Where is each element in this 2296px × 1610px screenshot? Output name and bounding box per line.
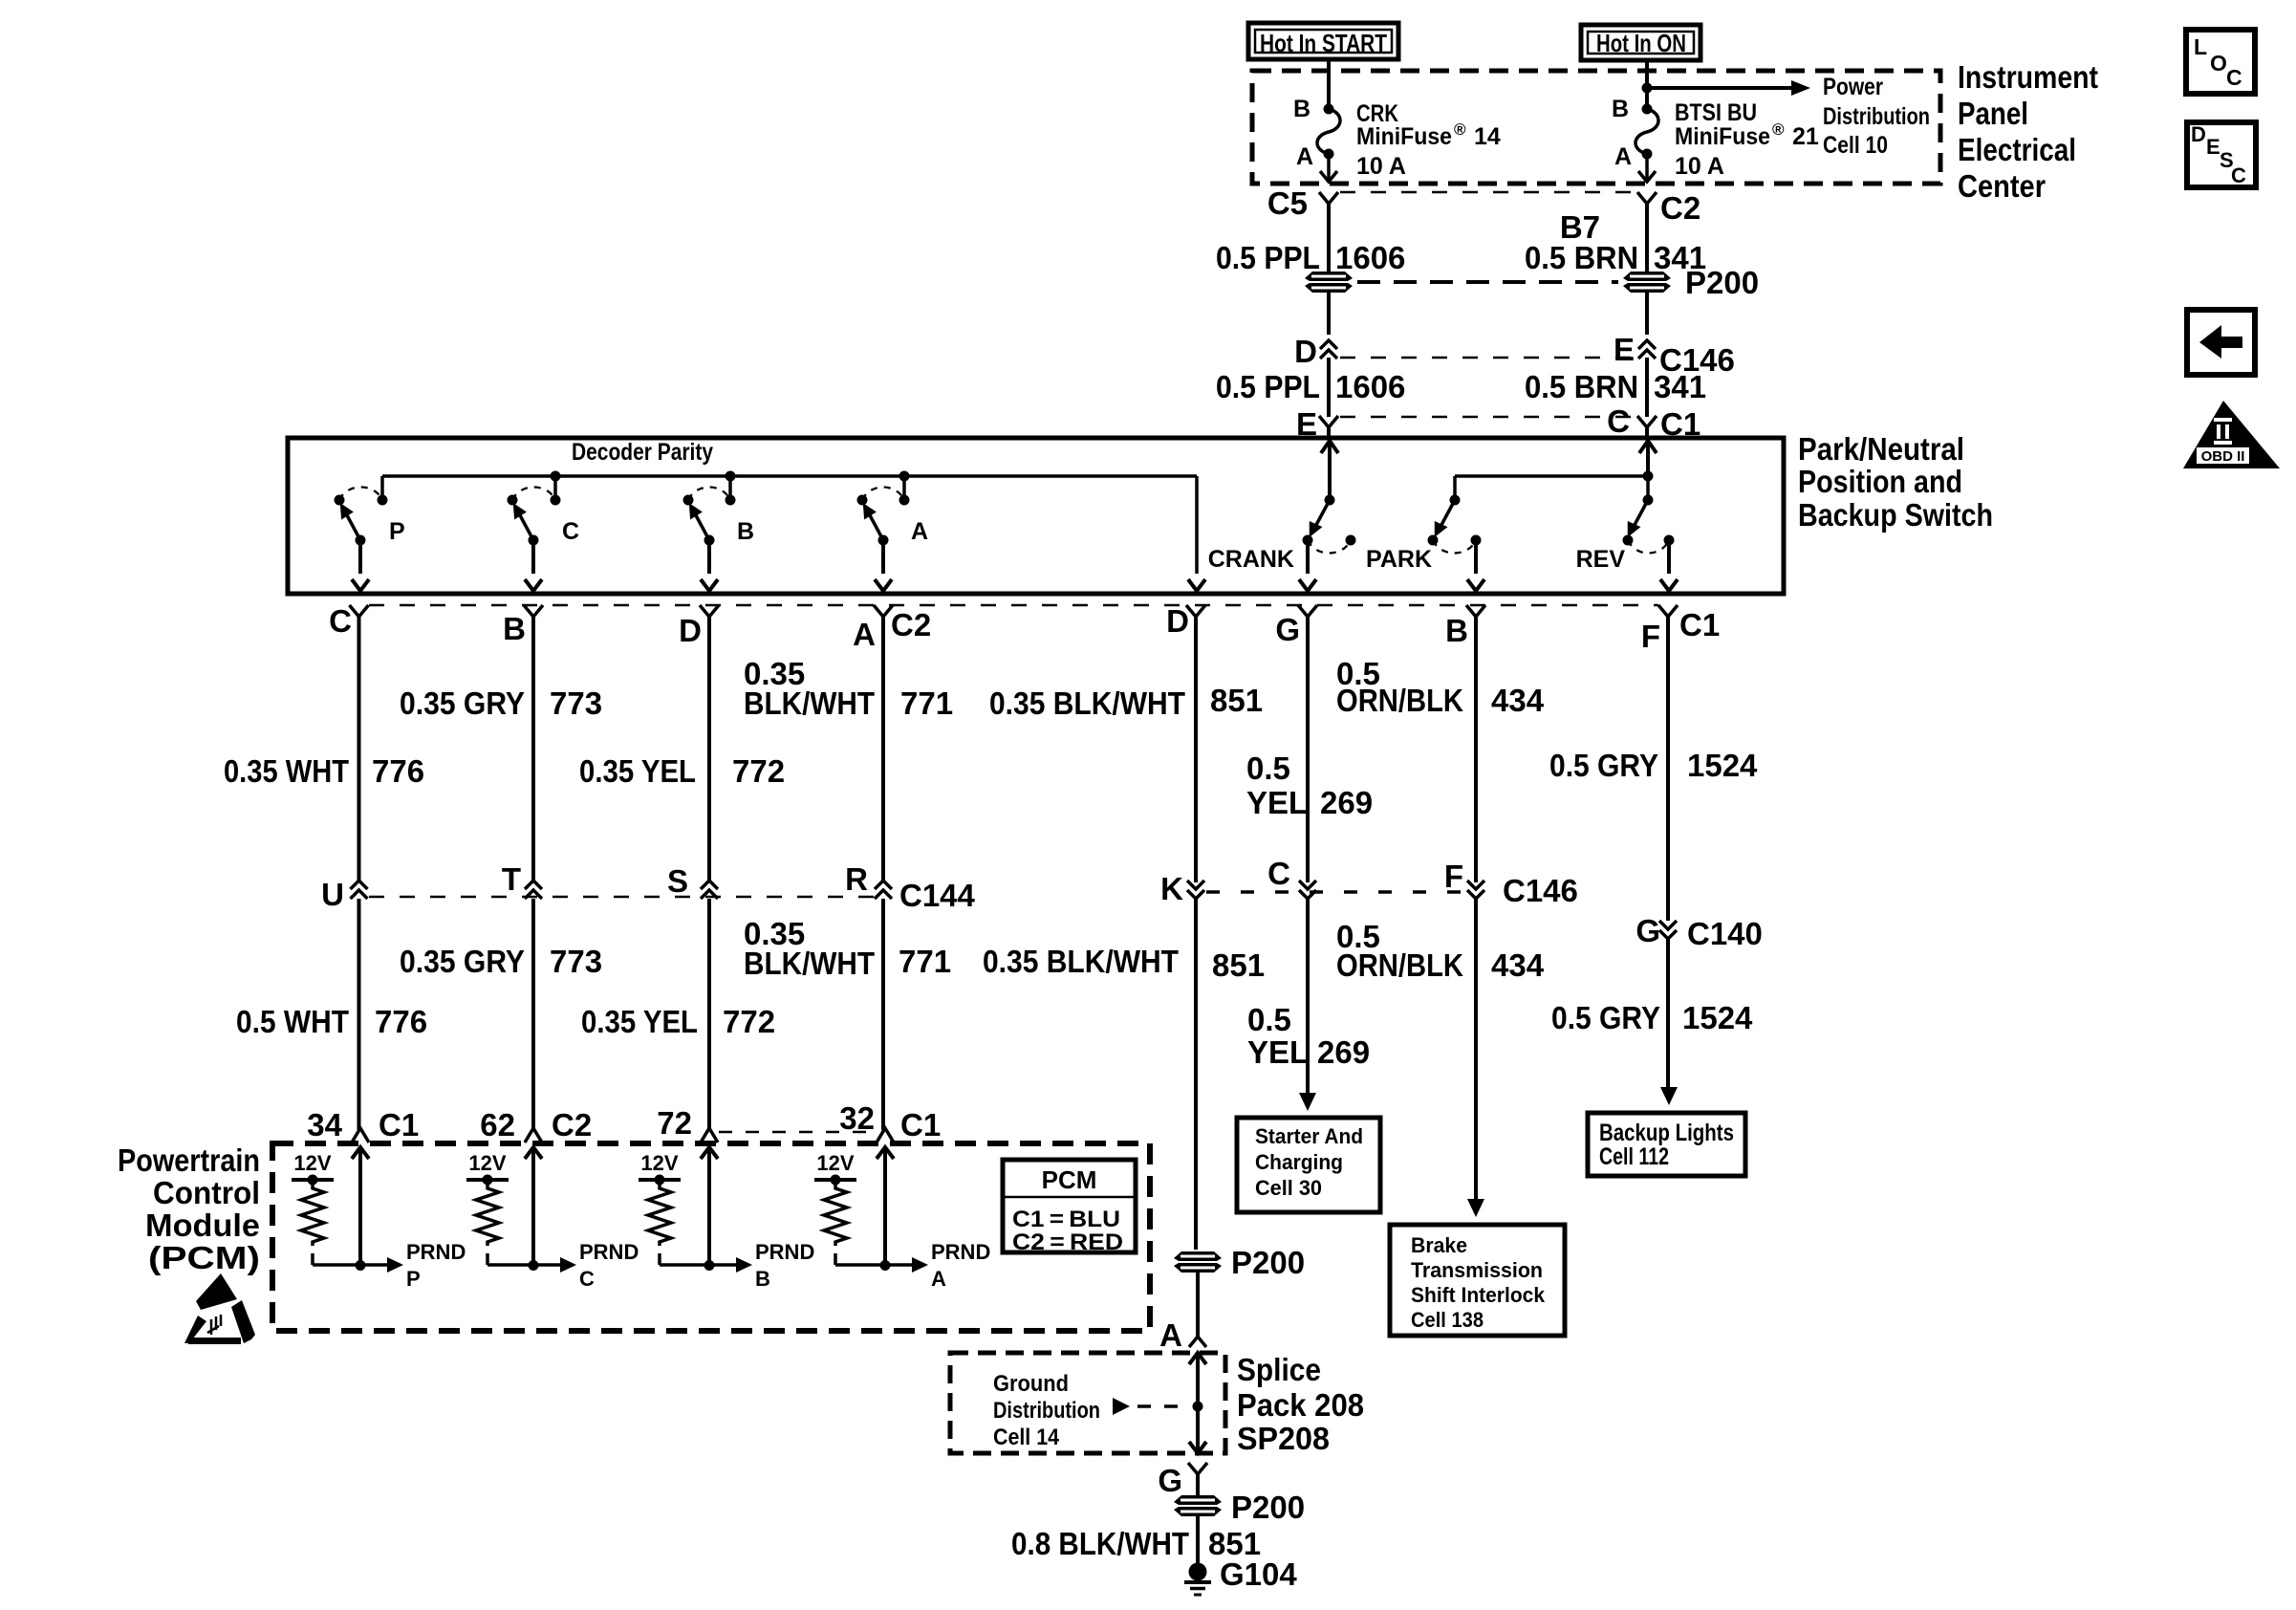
svg-text:0.35 GRY: 0.35 GRY: [400, 685, 525, 721]
connector C146b tie dashes: [1206, 890, 1464, 894]
svg-text:C1: C1: [900, 1107, 941, 1142]
wire 773 lower segment: [531, 899, 535, 1130]
svg-text:(PCM): (PCM): [148, 1240, 260, 1275]
wire hot-in-start feed: [1327, 59, 1331, 109]
svg-text:0.5: 0.5: [1246, 751, 1290, 786]
svg-text:0.5 WHT: 0.5 WHT: [236, 1004, 349, 1039]
svg-text:A: A: [1159, 1317, 1182, 1353]
svg-text:F: F: [1641, 619, 1660, 654]
wire 851 to ground: [1196, 1516, 1200, 1566]
connector C1 pin E: [1319, 416, 1338, 427]
power feed box Hot In START: [1248, 23, 1398, 59]
svg-text:C1 = BLU: C1 = BLU: [1012, 1207, 1120, 1232]
fuse CRK MiniFuse 14 output arrow: [1327, 154, 1331, 180]
svg-text:Hot In ON: Hot In ON: [1596, 29, 1686, 57]
wire 776 lower segment: [357, 899, 361, 1130]
decoder switch P: [335, 495, 345, 506]
connector pin D2 (row1): [1186, 605, 1205, 617]
svg-text:D: D: [1294, 334, 1317, 369]
svg-text:Power: Power: [1823, 74, 1883, 100]
svg-text:C2: C2: [1660, 190, 1700, 226]
connector tie line C146 top: [1340, 357, 1635, 359]
pcm wire P inside: [358, 1147, 362, 1265]
rail junction dot C: [551, 471, 561, 482]
wire 341 lower: [1645, 358, 1649, 417]
backup switch REV: [1643, 495, 1654, 506]
svg-text:434: 434: [1491, 683, 1545, 718]
svg-text:P200: P200: [1685, 265, 1759, 300]
svg-text:Panel: Panel: [1958, 96, 2028, 131]
svg-text:ORN/BLK: ORN/BLK: [1336, 683, 1463, 718]
park branch junction dot: [1643, 471, 1654, 482]
connector pin B (row1): [524, 605, 543, 617]
svg-text:12V: 12V: [468, 1151, 506, 1175]
svg-text:0.35 GRY: 0.35 GRY: [400, 944, 525, 979]
svg-text:D: D: [679, 613, 702, 648]
svg-text:772: 772: [723, 1004, 775, 1039]
park/neutral position and backup switch box: [288, 438, 1784, 594]
svg-text:P: P: [389, 518, 405, 545]
svg-text:Distribution: Distribution: [1823, 103, 1930, 130]
svg-text:C: C: [579, 1267, 595, 1291]
svg-text:CRANK: CRANK: [1208, 546, 1294, 573]
svg-text:21: 21: [1792, 123, 1819, 150]
svg-text:O: O: [2210, 51, 2227, 76]
junction dot power distribution branch: [1642, 83, 1653, 94]
svg-text:B: B: [503, 611, 526, 646]
svg-text:Splice: Splice: [1237, 1352, 1321, 1387]
connector C144 pin T: [525, 881, 542, 899]
svg-text:1524: 1524: [1682, 1000, 1753, 1035]
svg-text:C2: C2: [891, 607, 931, 642]
pass-through grommet P200 bottom: [1174, 1495, 1222, 1516]
svg-text:C1: C1: [379, 1107, 419, 1142]
svg-text:®: ®: [1772, 120, 1785, 139]
svg-text:PARK: PARK: [1366, 546, 1432, 573]
decoder parity rail: [380, 476, 384, 500]
connector C144 tie dashes: [369, 896, 874, 899]
wire 1524 lower segment: [1666, 939, 1670, 1092]
wire 341 to C146: [1645, 293, 1649, 335]
svg-text:C144: C144: [899, 878, 976, 913]
svg-text:C: C: [2231, 163, 2246, 187]
svg-text:0.5 BRN: 0.5 BRN: [1525, 240, 1638, 275]
instrument panel electrical center dashed box: [1252, 71, 1940, 184]
starter and charging box: [1237, 1118, 1380, 1212]
rail junction dot A: [899, 471, 910, 482]
svg-text:C: C: [329, 603, 352, 639]
svg-text:Ground: Ground: [993, 1371, 1069, 1397]
connector C2 pin: [1637, 192, 1657, 204]
svg-text:G: G: [1158, 1463, 1182, 1498]
connector C144 pin R: [875, 881, 892, 899]
svg-text:0.5 GRY: 0.5 GRY: [1551, 1000, 1660, 1035]
svg-text:BTSI BU: BTSI BU: [1675, 99, 1757, 126]
svg-text:YEL: YEL: [1246, 785, 1308, 820]
ground distribution pointer: [1113, 1398, 1130, 1415]
svg-text:U: U: [321, 877, 344, 912]
wire C into switch box: [1645, 427, 1649, 438]
pcm wire C inside: [531, 1147, 535, 1265]
connector pin B2 (row1): [1466, 605, 1485, 617]
svg-text:R: R: [845, 861, 868, 897]
splice wire with arrows: [1189, 1353, 1206, 1364]
fuse CRK MiniFuse 14 element: [1317, 109, 1340, 154]
svg-text:PRND: PRND: [406, 1240, 466, 1264]
svg-text:773: 773: [550, 944, 602, 979]
icon LOC box: [2186, 30, 2255, 94]
switch entry arrow C: [1639, 441, 1657, 453]
svg-text:E: E: [2206, 135, 2220, 159]
connector C5 pin: [1319, 192, 1338, 204]
ground G104: [1189, 1563, 1207, 1581]
switch entry arrow E: [1321, 441, 1338, 453]
svg-text:PRND: PRND: [931, 1240, 990, 1264]
icon back arrow box: [2187, 310, 2255, 375]
pass-through grommet P200 middle: [1174, 1251, 1222, 1273]
rail stub B: [728, 476, 732, 500]
connector pin C (row1): [350, 605, 369, 617]
svg-text:Position and: Position and: [1798, 464, 1962, 499]
svg-text:D: D: [2191, 122, 2206, 146]
connector C1 pin C: [1637, 416, 1657, 427]
connector C146 pin D: [1320, 340, 1337, 359]
svg-text:341: 341: [1654, 369, 1706, 404]
svg-text:REV: REV: [1576, 546, 1626, 573]
connector row C2/C1 tie dashes: [369, 604, 1658, 607]
wire 341 upper: [1645, 204, 1649, 272]
svg-text:776: 776: [372, 753, 424, 789]
connector pin A (row1): [874, 605, 893, 617]
svg-text:Charging: Charging: [1255, 1150, 1343, 1174]
svg-text:Module: Module: [145, 1207, 260, 1243]
svg-text:14: 14: [1474, 123, 1501, 150]
power feed box Hot In ON: [1581, 25, 1700, 60]
svg-text:Center: Center: [1958, 168, 2046, 204]
svg-text:B: B: [755, 1267, 770, 1291]
svg-text:C5: C5: [1267, 185, 1308, 221]
svg-text:F: F: [1444, 859, 1463, 894]
svg-text:BLK/WHT: BLK/WHT: [744, 685, 875, 721]
connector C146 pin K: [1187, 881, 1204, 899]
connector pin D (row1): [700, 605, 719, 617]
svg-text:773: 773: [550, 685, 602, 721]
svg-text:0.35 YEL: 0.35 YEL: [579, 753, 696, 789]
svg-text:B: B: [1612, 96, 1629, 122]
btsi feed arrow: [1467, 1199, 1484, 1217]
svg-text:10 A: 10 A: [1675, 153, 1724, 180]
svg-text:12V: 12V: [640, 1151, 678, 1175]
rail stub A: [902, 476, 906, 500]
wire 771 upper segment: [881, 617, 885, 881]
svg-text:T: T: [502, 861, 521, 897]
svg-text:MiniFuse: MiniFuse: [1675, 123, 1770, 150]
svg-text:0.5: 0.5: [1247, 1002, 1291, 1037]
svg-text:E: E: [1614, 332, 1635, 367]
wire 434 upper segment: [1474, 617, 1478, 882]
wire 1606 to C146: [1327, 293, 1331, 335]
svg-text:D: D: [1166, 603, 1189, 639]
svg-text:Instrument: Instrument: [1958, 59, 2098, 95]
wire E into switch box: [1327, 427, 1331, 438]
fuse BTSI BU MiniFuse 21 output arrow: [1645, 154, 1649, 180]
svg-text:C140: C140: [1687, 916, 1763, 951]
svg-text:A: A: [853, 617, 876, 652]
backup switch PARK: [1450, 495, 1461, 506]
connector C146 pin C: [1299, 881, 1316, 899]
svg-text:Hot In START: Hot In START: [1260, 29, 1387, 57]
splice pack pin G: [1188, 1463, 1207, 1474]
svg-text:Backup Lights: Backup Lights: [1599, 1120, 1734, 1146]
svg-text:C146: C146: [1503, 873, 1578, 908]
svg-text:C1: C1: [1679, 607, 1720, 642]
svg-text:269: 269: [1317, 1034, 1370, 1070]
svg-text:G104: G104: [1220, 1556, 1297, 1592]
decoder switch A: [857, 495, 868, 506]
svg-text:269: 269: [1320, 785, 1373, 820]
svg-text:P200: P200: [1231, 1490, 1305, 1525]
svg-text:Decoder Parity: Decoder Parity: [572, 439, 713, 466]
starter feed arrow: [1299, 1093, 1316, 1111]
svg-text:434: 434: [1491, 947, 1545, 983]
svg-text:P200: P200: [1231, 1245, 1305, 1280]
pcm wire A inside: [883, 1147, 887, 1265]
pcm pin tie dashes: [719, 1131, 875, 1134]
svg-text:1524: 1524: [1687, 748, 1758, 783]
wire 1606 upper: [1327, 204, 1331, 272]
svg-text:G: G: [1275, 612, 1300, 647]
connector tie line C1 top: [1340, 416, 1635, 419]
svg-text:B: B: [737, 518, 754, 545]
svg-text:B: B: [1293, 96, 1310, 122]
wire 851 trunk upper: [1194, 617, 1198, 882]
svg-text:Park/Neutral: Park/Neutral: [1798, 431, 1964, 467]
svg-text:SP208: SP208: [1237, 1421, 1330, 1456]
grommet tie line P200: [1357, 280, 1618, 284]
wire 269 lower segment: [1306, 899, 1310, 1098]
svg-text:Shift Interlock: Shift Interlock: [1411, 1283, 1546, 1307]
connector C140 pin G: [1659, 921, 1677, 939]
svg-text:Cell 10: Cell 10: [1823, 132, 1888, 159]
svg-text:0.5 BRN: 0.5 BRN: [1525, 369, 1638, 404]
svg-text:C: C: [562, 518, 579, 545]
svg-text:0.5 PPL: 0.5 PPL: [1216, 240, 1320, 275]
wire hot-in-on feed: [1645, 60, 1649, 109]
svg-text:771: 771: [899, 944, 951, 979]
pcm legend box: [1003, 1160, 1136, 1252]
esd sensitive device symbol: [196, 1273, 237, 1310]
svg-text:Powertrain: Powertrain: [118, 1142, 260, 1178]
fuse BTSI BU MiniFuse 21 terminal A: [1642, 149, 1653, 160]
rev feed wire: [1646, 476, 1650, 500]
svg-text:0.5 PPL: 0.5 PPL: [1216, 369, 1320, 404]
svg-text:C: C: [1607, 403, 1630, 439]
svg-text:PCM: PCM: [1042, 1165, 1097, 1194]
svg-text:1606: 1606: [1335, 240, 1405, 275]
svg-text:A: A: [931, 1267, 946, 1291]
fuse CRK MiniFuse 14 terminal B: [1324, 104, 1334, 115]
rail junction dot B: [726, 471, 736, 482]
icon OBD II triangle: [2183, 401, 2280, 468]
svg-text:Starter And: Starter And: [1255, 1124, 1363, 1148]
connector C146 pin F: [1467, 881, 1484, 899]
svg-text:72: 72: [657, 1105, 692, 1141]
powertrain control module dashed box: [272, 1143, 1150, 1331]
wire 773 upper segment: [531, 617, 535, 881]
wire 771 lower segment: [881, 899, 885, 1130]
pass-through grommet P200 right: [1623, 272, 1671, 293]
svg-text:C: C: [2226, 65, 2242, 90]
svg-text:YEL: YEL: [1247, 1034, 1309, 1070]
svg-text:0.35 BLK/WHT: 0.35 BLK/WHT: [989, 685, 1185, 721]
svg-text:PRND: PRND: [579, 1240, 639, 1264]
svg-text:Cell 14: Cell 14: [993, 1425, 1060, 1450]
backup feed arrow: [1660, 1087, 1678, 1105]
svg-text:PRND: PRND: [755, 1240, 814, 1264]
svg-text:0.8 BLK/WHT: 0.8 BLK/WHT: [1011, 1526, 1189, 1561]
svg-text:A: A: [1614, 143, 1632, 170]
svg-text:Backup Switch: Backup Switch: [1798, 497, 1993, 533]
pcm wire B inside: [707, 1147, 711, 1265]
wire 772 lower segment: [707, 899, 711, 1130]
park branch wire: [1455, 474, 1648, 478]
svg-text:Brake: Brake: [1411, 1233, 1467, 1257]
wire G to P200: [1196, 1474, 1200, 1495]
svg-text:MiniFuse: MiniFuse: [1356, 123, 1452, 150]
svg-text:10 A: 10 A: [1356, 153, 1406, 180]
rail stub C: [553, 476, 557, 500]
svg-text:851: 851: [1212, 947, 1265, 983]
connector C144 pin S: [701, 881, 718, 899]
fuse CRK MiniFuse 14 terminal A: [1324, 149, 1334, 160]
svg-text:0.35 YEL: 0.35 YEL: [581, 1004, 698, 1039]
svg-text:C2 = RED: C2 = RED: [1012, 1229, 1123, 1255]
svg-text:Cell 112: Cell 112: [1599, 1143, 1669, 1170]
connector C144 pin U: [351, 881, 368, 899]
svg-text:S: S: [667, 863, 688, 899]
svg-text:Control: Control: [153, 1175, 260, 1210]
svg-text:G: G: [1635, 913, 1660, 948]
connector tie line C5-C2: [1340, 191, 1635, 194]
fuse BTSI BU MiniFuse 21 element: [1635, 109, 1658, 154]
svg-text:776: 776: [375, 1004, 427, 1039]
svg-text:B: B: [1445, 613, 1468, 648]
splice junction dot: [1193, 1402, 1203, 1412]
svg-text:0.5 GRY: 0.5 GRY: [1549, 748, 1658, 783]
wire 772 upper segment: [707, 617, 711, 881]
svg-text:Cell 138: Cell 138: [1411, 1308, 1484, 1332]
decoder output arrow D: [1188, 579, 1205, 591]
svg-text:C: C: [1267, 856, 1290, 891]
connector pin G (row1): [1298, 605, 1317, 617]
svg-text:Pack 208: Pack 208: [1237, 1387, 1364, 1423]
svg-text:12V: 12V: [816, 1151, 854, 1175]
svg-text:0.35 WHT: 0.35 WHT: [224, 753, 349, 789]
wire 434 lower segment: [1474, 899, 1478, 1204]
power distribution arrow: [1647, 86, 1795, 90]
svg-text:L: L: [2194, 34, 2207, 59]
backup lights box: [1588, 1113, 1745, 1176]
brake transmission shift interlock box: [1390, 1225, 1565, 1336]
svg-text:32: 32: [839, 1100, 875, 1136]
svg-text:771: 771: [900, 685, 953, 721]
svg-text:®: ®: [1454, 120, 1466, 139]
svg-text:62: 62: [480, 1107, 515, 1142]
svg-text:0.35 BLK/WHT: 0.35 BLK/WHT: [983, 944, 1179, 979]
svg-text:Cell 30: Cell 30: [1255, 1176, 1322, 1200]
svg-text:ORN/BLK: ORN/BLK: [1336, 947, 1463, 983]
svg-text:772: 772: [732, 753, 785, 789]
ground distribution dashed box: [950, 1353, 1225, 1453]
svg-text:K: K: [1160, 871, 1183, 906]
svg-text:A: A: [1296, 143, 1313, 170]
svg-text:Transmission: Transmission: [1411, 1258, 1543, 1282]
svg-text:Electrical: Electrical: [1958, 132, 2076, 167]
svg-text:C2: C2: [552, 1107, 592, 1142]
svg-text:OBD II: OBD II: [2201, 448, 2245, 465]
svg-text:Distribution: Distribution: [993, 1398, 1100, 1424]
splice pack pin A: [1189, 1337, 1206, 1347]
connector C146 pin E: [1638, 340, 1656, 359]
svg-text:34: 34: [307, 1107, 342, 1142]
fuse BTSI BU MiniFuse 21 terminal B: [1642, 104, 1653, 115]
wire 776 upper segment: [357, 617, 361, 881]
connector pin F (row1): [1658, 605, 1678, 617]
decoder switch B: [683, 495, 694, 506]
svg-text:851: 851: [1210, 683, 1263, 718]
wire 269 upper segment: [1306, 617, 1310, 882]
backup switch CRANK: [1325, 495, 1335, 506]
svg-text:BLK/WHT: BLK/WHT: [744, 946, 875, 981]
icon DESC box: [2187, 122, 2256, 187]
wire 1524 upper segment: [1666, 617, 1670, 921]
svg-text:1606: 1606: [1335, 369, 1405, 404]
svg-text:P: P: [406, 1267, 421, 1291]
wire 851 to splice: [1196, 1273, 1200, 1337]
wire 1606 lower: [1327, 358, 1331, 417]
pass-through grommet P200 left: [1305, 272, 1353, 293]
svg-text:12V: 12V: [293, 1151, 331, 1175]
wire 851 trunk lower: [1194, 899, 1198, 1250]
decoder switch C: [508, 495, 518, 506]
svg-text:A: A: [911, 518, 928, 545]
